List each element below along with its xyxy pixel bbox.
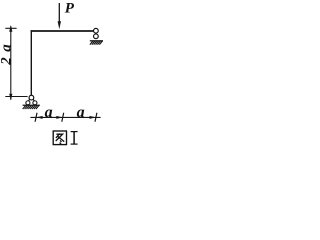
svg-text:P: P [65, 0, 75, 16]
svg-text:a: a [77, 104, 85, 121]
svg-text:2a: 2a [0, 39, 15, 66]
svg-text:a: a [45, 104, 53, 121]
